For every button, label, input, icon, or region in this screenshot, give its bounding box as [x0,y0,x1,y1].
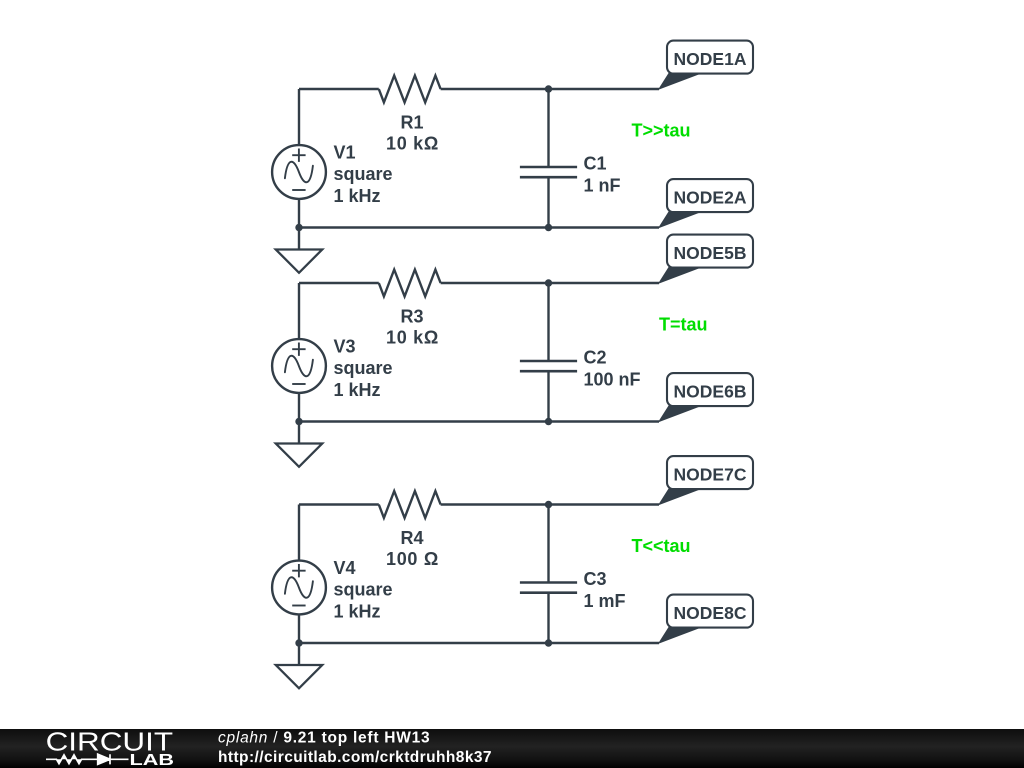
wire: top rail left segment (corner to resistor R3) [299,282,379,284]
svg-text:1 nF: 1 nF [584,175,621,195]
node flag NODE1A [659,41,753,89]
svg-text:V3: V3 [334,336,356,356]
wire: capacitor C1 bottom lead [547,177,549,227]
junction dot: bottom rail / source V1 [295,224,302,231]
ground GND3 [276,643,322,688]
resistor R4 [379,491,441,518]
wire: bottom rail from source to flag NODE2A tail [299,226,659,228]
wire: capacitor C2 bottom lead [547,371,549,421]
svg-text:cplahn / 9.21 top left HW13: cplahn / 9.21 top left HW13 [218,729,430,746]
svg-text:10 kΩ: 10 kΩ [386,328,439,348]
node flag NODE8C [659,595,753,643]
wire: capacitor C2 top lead [547,283,549,361]
svg-text:NODE6B: NODE6B [674,381,747,401]
svg-text:square: square [334,358,393,378]
ground GND1 [276,228,322,273]
junction dot: top rail / C1 [545,85,552,92]
resistor R3 [379,270,441,297]
node flag NODE7C [659,456,753,504]
node flag NODE2A [659,179,753,227]
junction dot: bottom rail / source V3 [295,418,302,425]
svg-text:NODE8C: NODE8C [674,603,747,623]
wire: capacitor C3 top lead [547,505,549,583]
svg-text:10 kΩ: 10 kΩ [386,134,439,154]
svg-text:1 kHz: 1 kHz [334,601,381,621]
ground GND2 [276,422,322,467]
svg-text:NODE5B: NODE5B [674,243,747,263]
svg-text:1 mF: 1 mF [584,591,626,611]
wire: source V3 bottom lead to bottom rail [298,393,300,422]
voltage source V3 (square 1 kHz) [272,339,326,393]
wire: top-left vertical from source V1 up to top rail [298,89,300,145]
voltage source V4 (square 1 kHz) [272,561,326,615]
svg-text:square: square [334,164,393,184]
wire: capacitor C3 bottom lead [547,593,549,643]
wire: source V4 bottom lead to bottom rail [298,614,300,643]
junction dot: bottom rail / C1 [545,224,552,231]
svg-text:R3: R3 [401,307,424,327]
svg-text:T>>tau: T>>tau [632,120,691,140]
svg-text:1 kHz: 1 kHz [334,380,381,400]
junction dot: top rail / C2 [545,279,552,286]
svg-text:NODE2A: NODE2A [674,187,747,207]
svg-text:T<<tau: T<<tau [632,536,691,556]
junction dot: bottom rail / source V4 [295,639,302,646]
junction dot: bottom rail / C2 [545,418,552,425]
junction dot: bottom rail / C3 [545,639,552,646]
svg-text:C1: C1 [584,153,607,173]
wire: top rail from resistor R4 to flag NODE7C tail [441,503,659,505]
svg-text:100 Ω: 100 Ω [386,549,439,569]
svg-text:R4: R4 [401,528,424,548]
wire: top rail from resistor R1 to flag NODE1A tail [441,88,659,90]
svg-text:NODE1A: NODE1A [674,49,747,69]
voltage source V1 (square 1 kHz) [272,145,326,199]
wire: source V1 bottom lead to bottom rail [298,199,300,228]
node flag NODE6B [659,373,753,421]
wire: top rail left segment (corner to resistor R4) [299,503,379,505]
svg-text:V4: V4 [334,558,356,578]
wire: top-left vertical from source V4 up to top rail [298,505,300,561]
svg-text:http://circuitlab.com/crktdruh: http://circuitlab.com/crktdruhh8k37 [218,749,492,766]
svg-text:square: square [334,580,393,600]
wire: top rail from resistor R3 to flag NODE5B tail [441,282,659,284]
junction dot: top rail / C3 [545,501,552,508]
logo resistor-diode glyph [46,754,129,764]
svg-text:V1: V1 [334,142,356,162]
node flag NODE5B [659,235,753,283]
capacitor C3 [520,583,577,593]
svg-text:LAB: LAB [130,752,175,768]
svg-text:1 kHz: 1 kHz [334,186,381,206]
svg-text:100 nF: 100 nF [584,369,641,389]
svg-text:NODE7C: NODE7C [674,464,747,484]
svg-text:C2: C2 [584,347,607,367]
capacitor C1 [520,167,577,177]
wire: top-left vertical from source V3 up to top rail [298,283,300,339]
wire: top rail left segment (corner to resistor R1) [299,88,379,90]
wire: capacitor C1 top lead [547,89,549,167]
svg-text:C3: C3 [584,569,607,589]
capacitor C2 [520,361,577,371]
svg-text:R1: R1 [401,113,424,133]
resistor R1 [379,76,441,103]
svg-text:T=tau: T=tau [659,314,708,334]
wire: bottom rail from source to flag NODE6B tail [299,420,659,422]
wire: bottom rail from source to flag NODE8C tail [299,642,659,644]
